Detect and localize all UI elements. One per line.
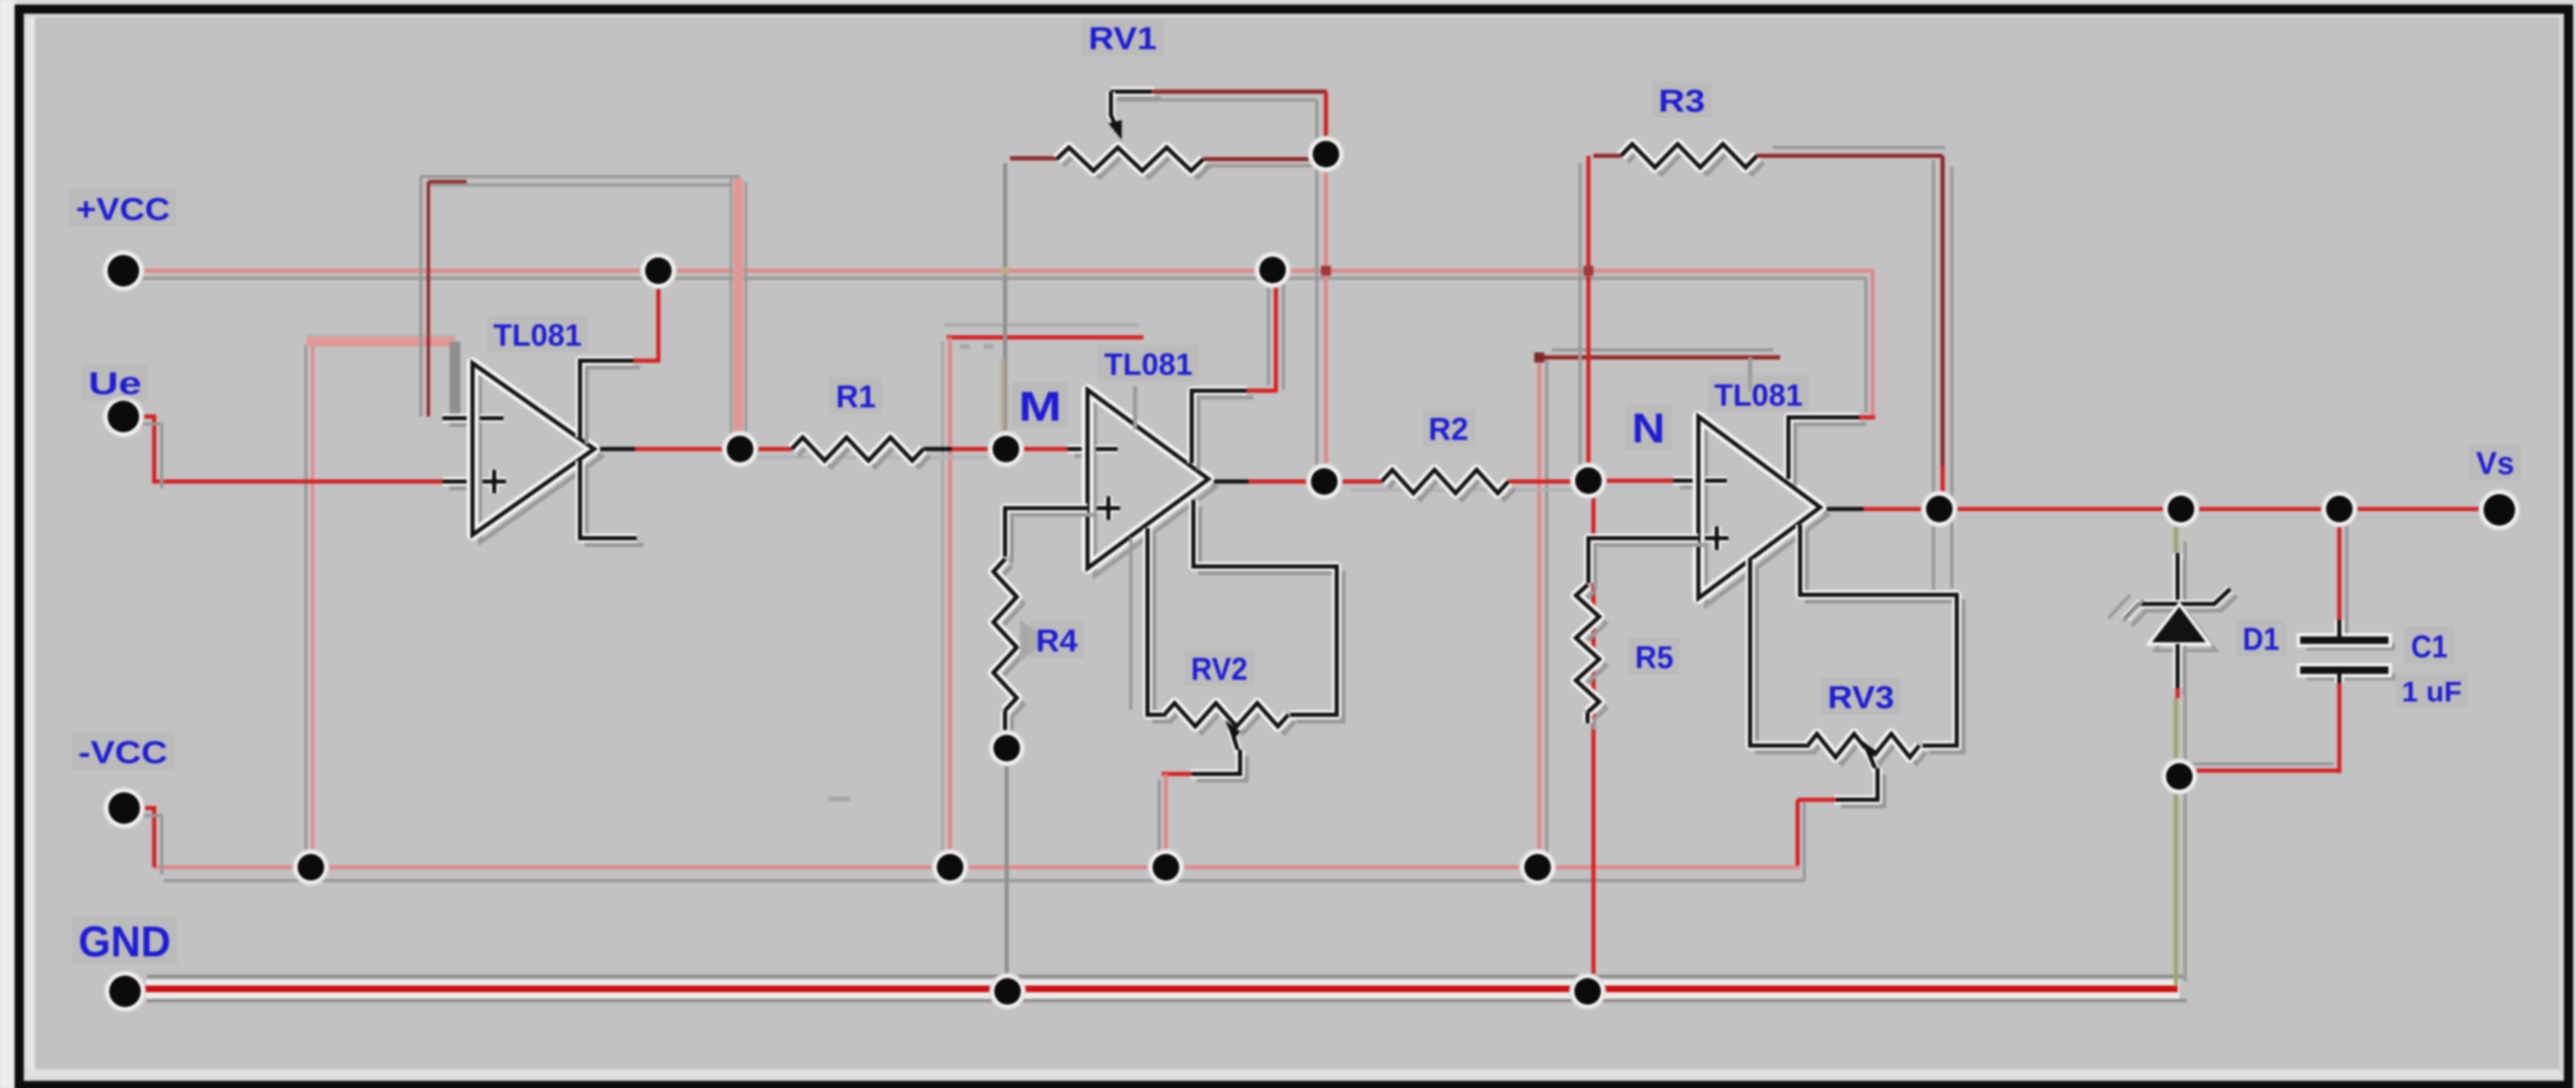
svg-text:RV3: RV3 xyxy=(1828,681,1894,716)
svg-text:+VCC: +VCC xyxy=(76,192,170,227)
svg-text:M: M xyxy=(1018,383,1062,430)
svg-text:C1: C1 xyxy=(2411,630,2448,665)
svg-text:R3: R3 xyxy=(1658,84,1705,119)
svg-text:R5: R5 xyxy=(1635,641,1673,676)
svg-text:R1: R1 xyxy=(836,380,876,415)
svg-text:D1: D1 xyxy=(2243,622,2279,657)
svg-text:N: N xyxy=(1632,405,1665,452)
svg-text:-VCC: -VCC xyxy=(78,736,168,771)
svg-text:Vs: Vs xyxy=(2476,447,2514,482)
svg-text:TL081: TL081 xyxy=(493,318,582,352)
svg-text:TL081: TL081 xyxy=(1104,347,1193,382)
svg-text:RV2: RV2 xyxy=(1191,652,1248,687)
svg-text:GND: GND xyxy=(78,918,171,966)
svg-text:R4: R4 xyxy=(1036,624,1078,659)
svg-text:R2: R2 xyxy=(1428,412,1468,447)
svg-text:Ue: Ue xyxy=(88,367,142,402)
svg-text:1 uF: 1 uF xyxy=(2402,676,2462,708)
svg-text:RV1: RV1 xyxy=(1088,22,1157,57)
svg-text:TL081: TL081 xyxy=(1714,378,1803,412)
